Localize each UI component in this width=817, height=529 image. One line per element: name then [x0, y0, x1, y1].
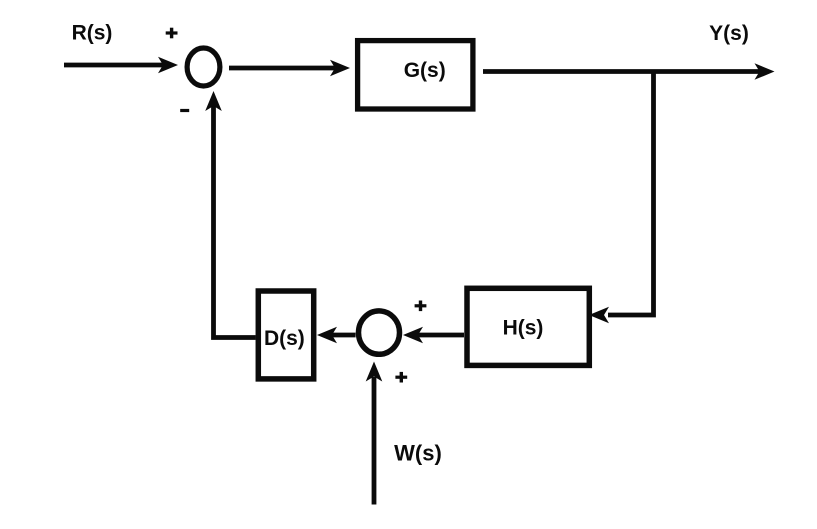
summing junction S1: [187, 48, 220, 86]
svg-text:H(s): H(s): [503, 317, 544, 340]
minus sign at summing junction S1: [180, 109, 189, 112]
wire W(s) input arrow: [366, 362, 383, 505]
block G(s): [358, 41, 473, 109]
summing junction S2: [359, 311, 400, 354]
node branch point and wire down to H(s) with arrow: [589, 72, 654, 324]
label Y(s): [709, 22, 749, 45]
label W(s): [394, 440, 442, 465]
svg-text:D(s): D(s): [264, 327, 305, 350]
wire S2 to D(s): [317, 327, 356, 344]
plus sign for H(s) input to S2: [415, 301, 427, 312]
svg-text:G(s): G(s): [404, 59, 446, 82]
svg-text:R(s): R(s): [72, 21, 113, 44]
block D(s): [258, 291, 313, 379]
wire H(s) to S2: [403, 327, 464, 344]
svg-text:W(s): W(s): [394, 440, 442, 465]
wire G(s) to Y(s) output: [483, 63, 775, 80]
block H(s): [467, 288, 589, 365]
plus sign for W(s) input to S2: [395, 372, 407, 383]
wire D(s) feedback left and up to S1: [205, 91, 255, 338]
plus sign at summing junction S1: [166, 28, 178, 39]
wire R(s) input arrow: [64, 57, 178, 74]
label R(s): [72, 21, 113, 44]
wire S1 to G(s): [229, 60, 350, 77]
svg-text:Y(s): Y(s): [709, 22, 749, 45]
